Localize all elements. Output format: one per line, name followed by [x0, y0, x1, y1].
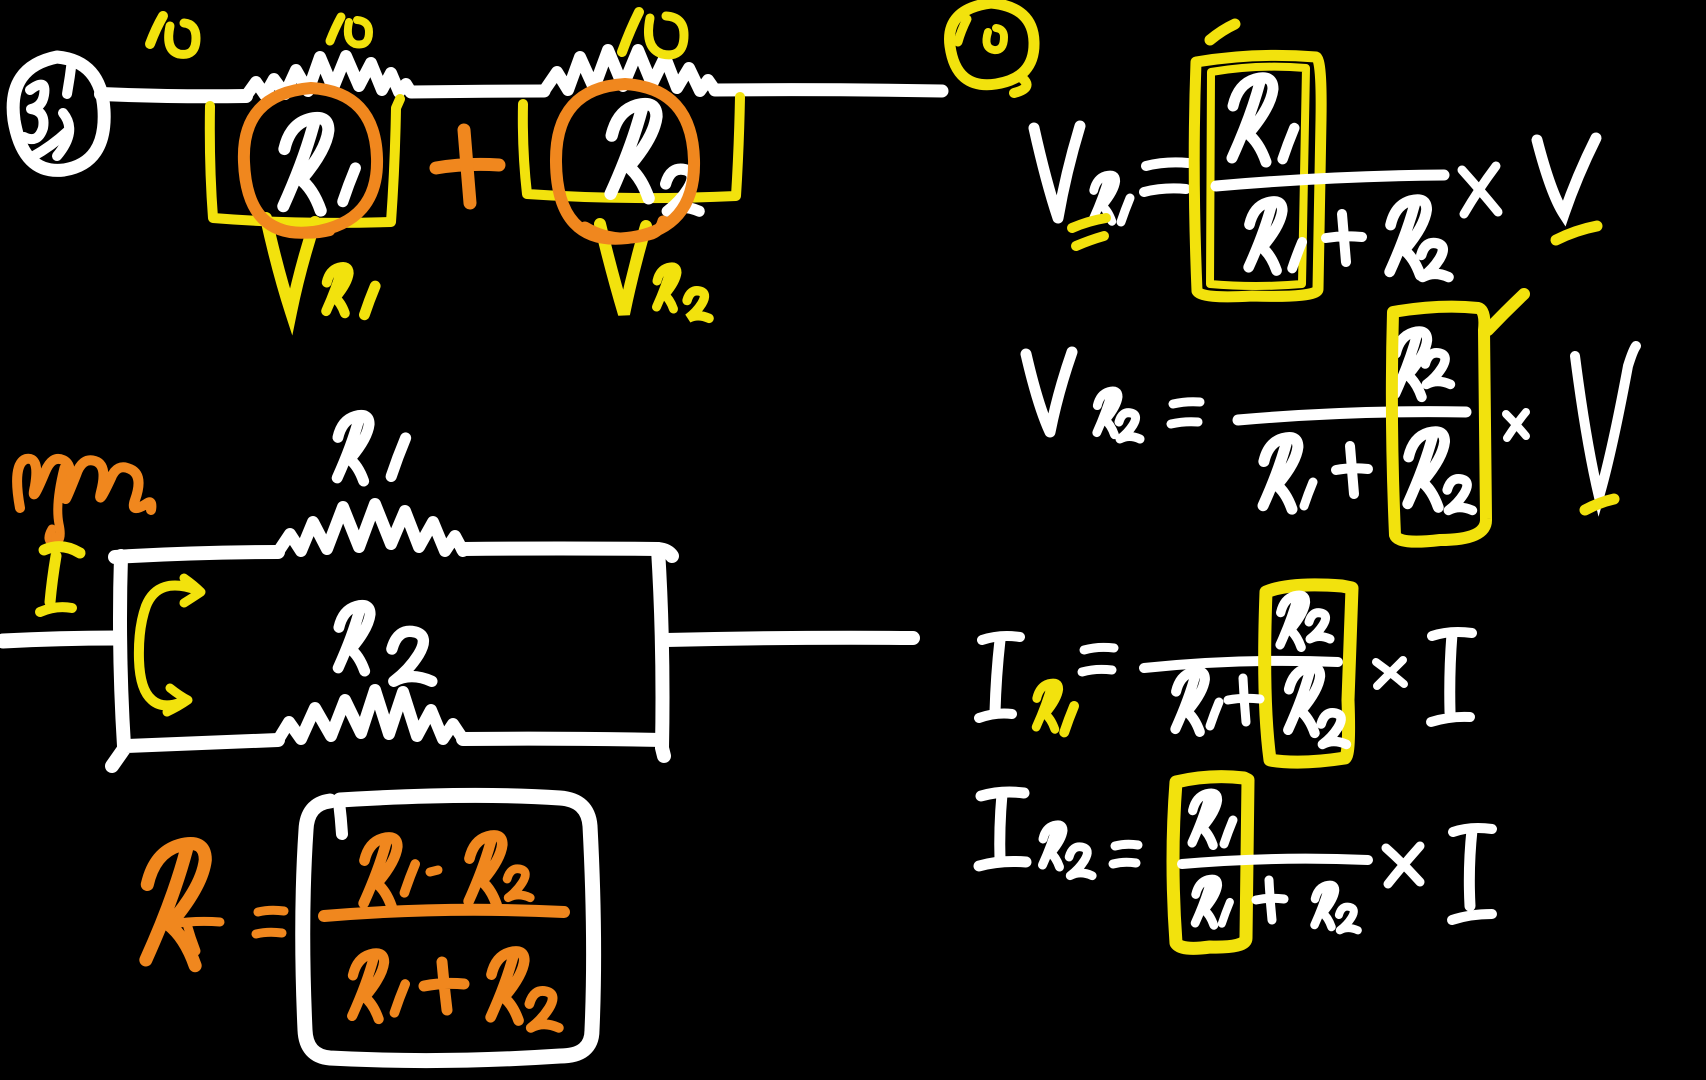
I total (formula 4) [1452, 828, 1492, 920]
yellow current arrow inside loop [139, 578, 201, 712]
orange circle around R1 [244, 88, 377, 234]
wire out of parallel network [666, 638, 913, 640]
denominator R1 + R2 (formula 1) [1249, 200, 1449, 278]
orange annotation scribble (parallel label) [17, 459, 151, 543]
yellow highlight box around R2 (formula 2) [1392, 294, 1524, 542]
node right wall of parallel loop [658, 549, 664, 756]
resistor R2 (parallel, bottom branch) [278, 690, 463, 740]
numerator R1 (formula 4) [1192, 793, 1233, 845]
yellow highlight box around R1 (formula 4) [1173, 777, 1248, 949]
equals sign formula 1 [1144, 162, 1188, 192]
label R2 (series resistor) [611, 104, 700, 211]
times sign (formula 2) [1506, 412, 1526, 438]
yellow underline under V (formula 1) [1556, 226, 1597, 240]
numerator R2 (formula 3) [1280, 595, 1330, 647]
R_T lhs (orange) [146, 844, 220, 966]
wire R2 to node [715, 90, 942, 91]
formula V_R1 : lhs V with subscript R1 [1034, 126, 1130, 222]
equals sign formula 2 [1171, 402, 1200, 424]
V total (formula 1) [1537, 138, 1596, 214]
node left wall of parallel loop [120, 556, 124, 746]
label I (current, yellow) [40, 547, 80, 612]
numerator R1 (formula 1) [1232, 78, 1294, 162]
fraction bar (orange) [324, 910, 564, 916]
orange circle around R2 [556, 84, 694, 239]
label V_R2 (yellow) [600, 224, 709, 318]
value label 1ohm above R2 [622, 12, 684, 55]
node marker yellow circle [950, 3, 1035, 93]
white box around R_T formula [303, 795, 594, 1060]
times sign (formula 4) [1386, 846, 1420, 884]
times sign (formula 1) [1462, 166, 1498, 214]
I total (formula 3) [1431, 632, 1472, 722]
resistor R2 (series) [544, 50, 715, 91]
label R1 (series resistor) [283, 118, 355, 211]
times sign (formula 3) [1376, 660, 1404, 686]
wire top-right segment [463, 549, 672, 557]
yellow underline under V (formula 2) [1585, 499, 1614, 510]
fraction bar (formula 2) [1238, 412, 1466, 420]
equals sign (orange, R_T formula) [256, 910, 284, 934]
fraction bar (formula 4) [1182, 859, 1368, 864]
fraction bar (formula 1) [1216, 175, 1444, 186]
label V_R1 (yellow) [266, 218, 375, 315]
denominator R1 + R2 (formula 4) [1195, 879, 1358, 930]
plus between brackets (orange) [436, 130, 499, 203]
numerator R2 (formula 2) [1395, 331, 1450, 397]
wire into parallel network [3, 638, 117, 641]
wire bottom-left segment [112, 740, 278, 766]
denominator R1 + R2 (formula 3) [1175, 667, 1346, 744]
equals sign formula 4 [1113, 844, 1138, 864]
wire top-left segment [115, 552, 278, 557]
numerator R1 . R2 (orange) [364, 835, 531, 906]
formula I_R2 : lhs I with subscript R2 [979, 792, 1092, 876]
wire bottom-right segment [463, 739, 662, 740]
yellow highlight box around R1 (formula 1) [1194, 24, 1321, 297]
wire source to R1 [101, 94, 246, 96]
yellow double tick under equals (formula 1) [1072, 218, 1106, 246]
bracket V_R2 (yellow) [523, 97, 740, 198]
resistor R1 (series) [246, 56, 411, 96]
label R1 (parallel resistor) [337, 415, 405, 481]
equals sign formula 3 [1082, 647, 1114, 672]
wire R1 to R2 [411, 91, 544, 92]
label R2 (parallel resistor) [338, 605, 432, 681]
formula I_R1 : lhs I with yellow subscript R1 [979, 636, 1020, 718]
value label 1ohm at source [150, 16, 196, 54]
denominator R1 + R2 (formula 2) [1263, 432, 1472, 511]
formula V_R2 : lhs V with subscript R2 [1026, 352, 1140, 439]
value label 1ohm above R1 [330, 17, 369, 45]
yellow highlight box around R2 (formula 3) [1265, 585, 1352, 762]
V total (formula 2) [1575, 346, 1636, 497]
fraction bar (formula 3) [1144, 661, 1338, 668]
voltage source V [13, 57, 104, 170]
denominator R1 + R2 (orange) [352, 951, 559, 1027]
resistor R1 (parallel, top branch) [278, 504, 463, 552]
bracket V_R1 (yellow) [210, 99, 400, 223]
